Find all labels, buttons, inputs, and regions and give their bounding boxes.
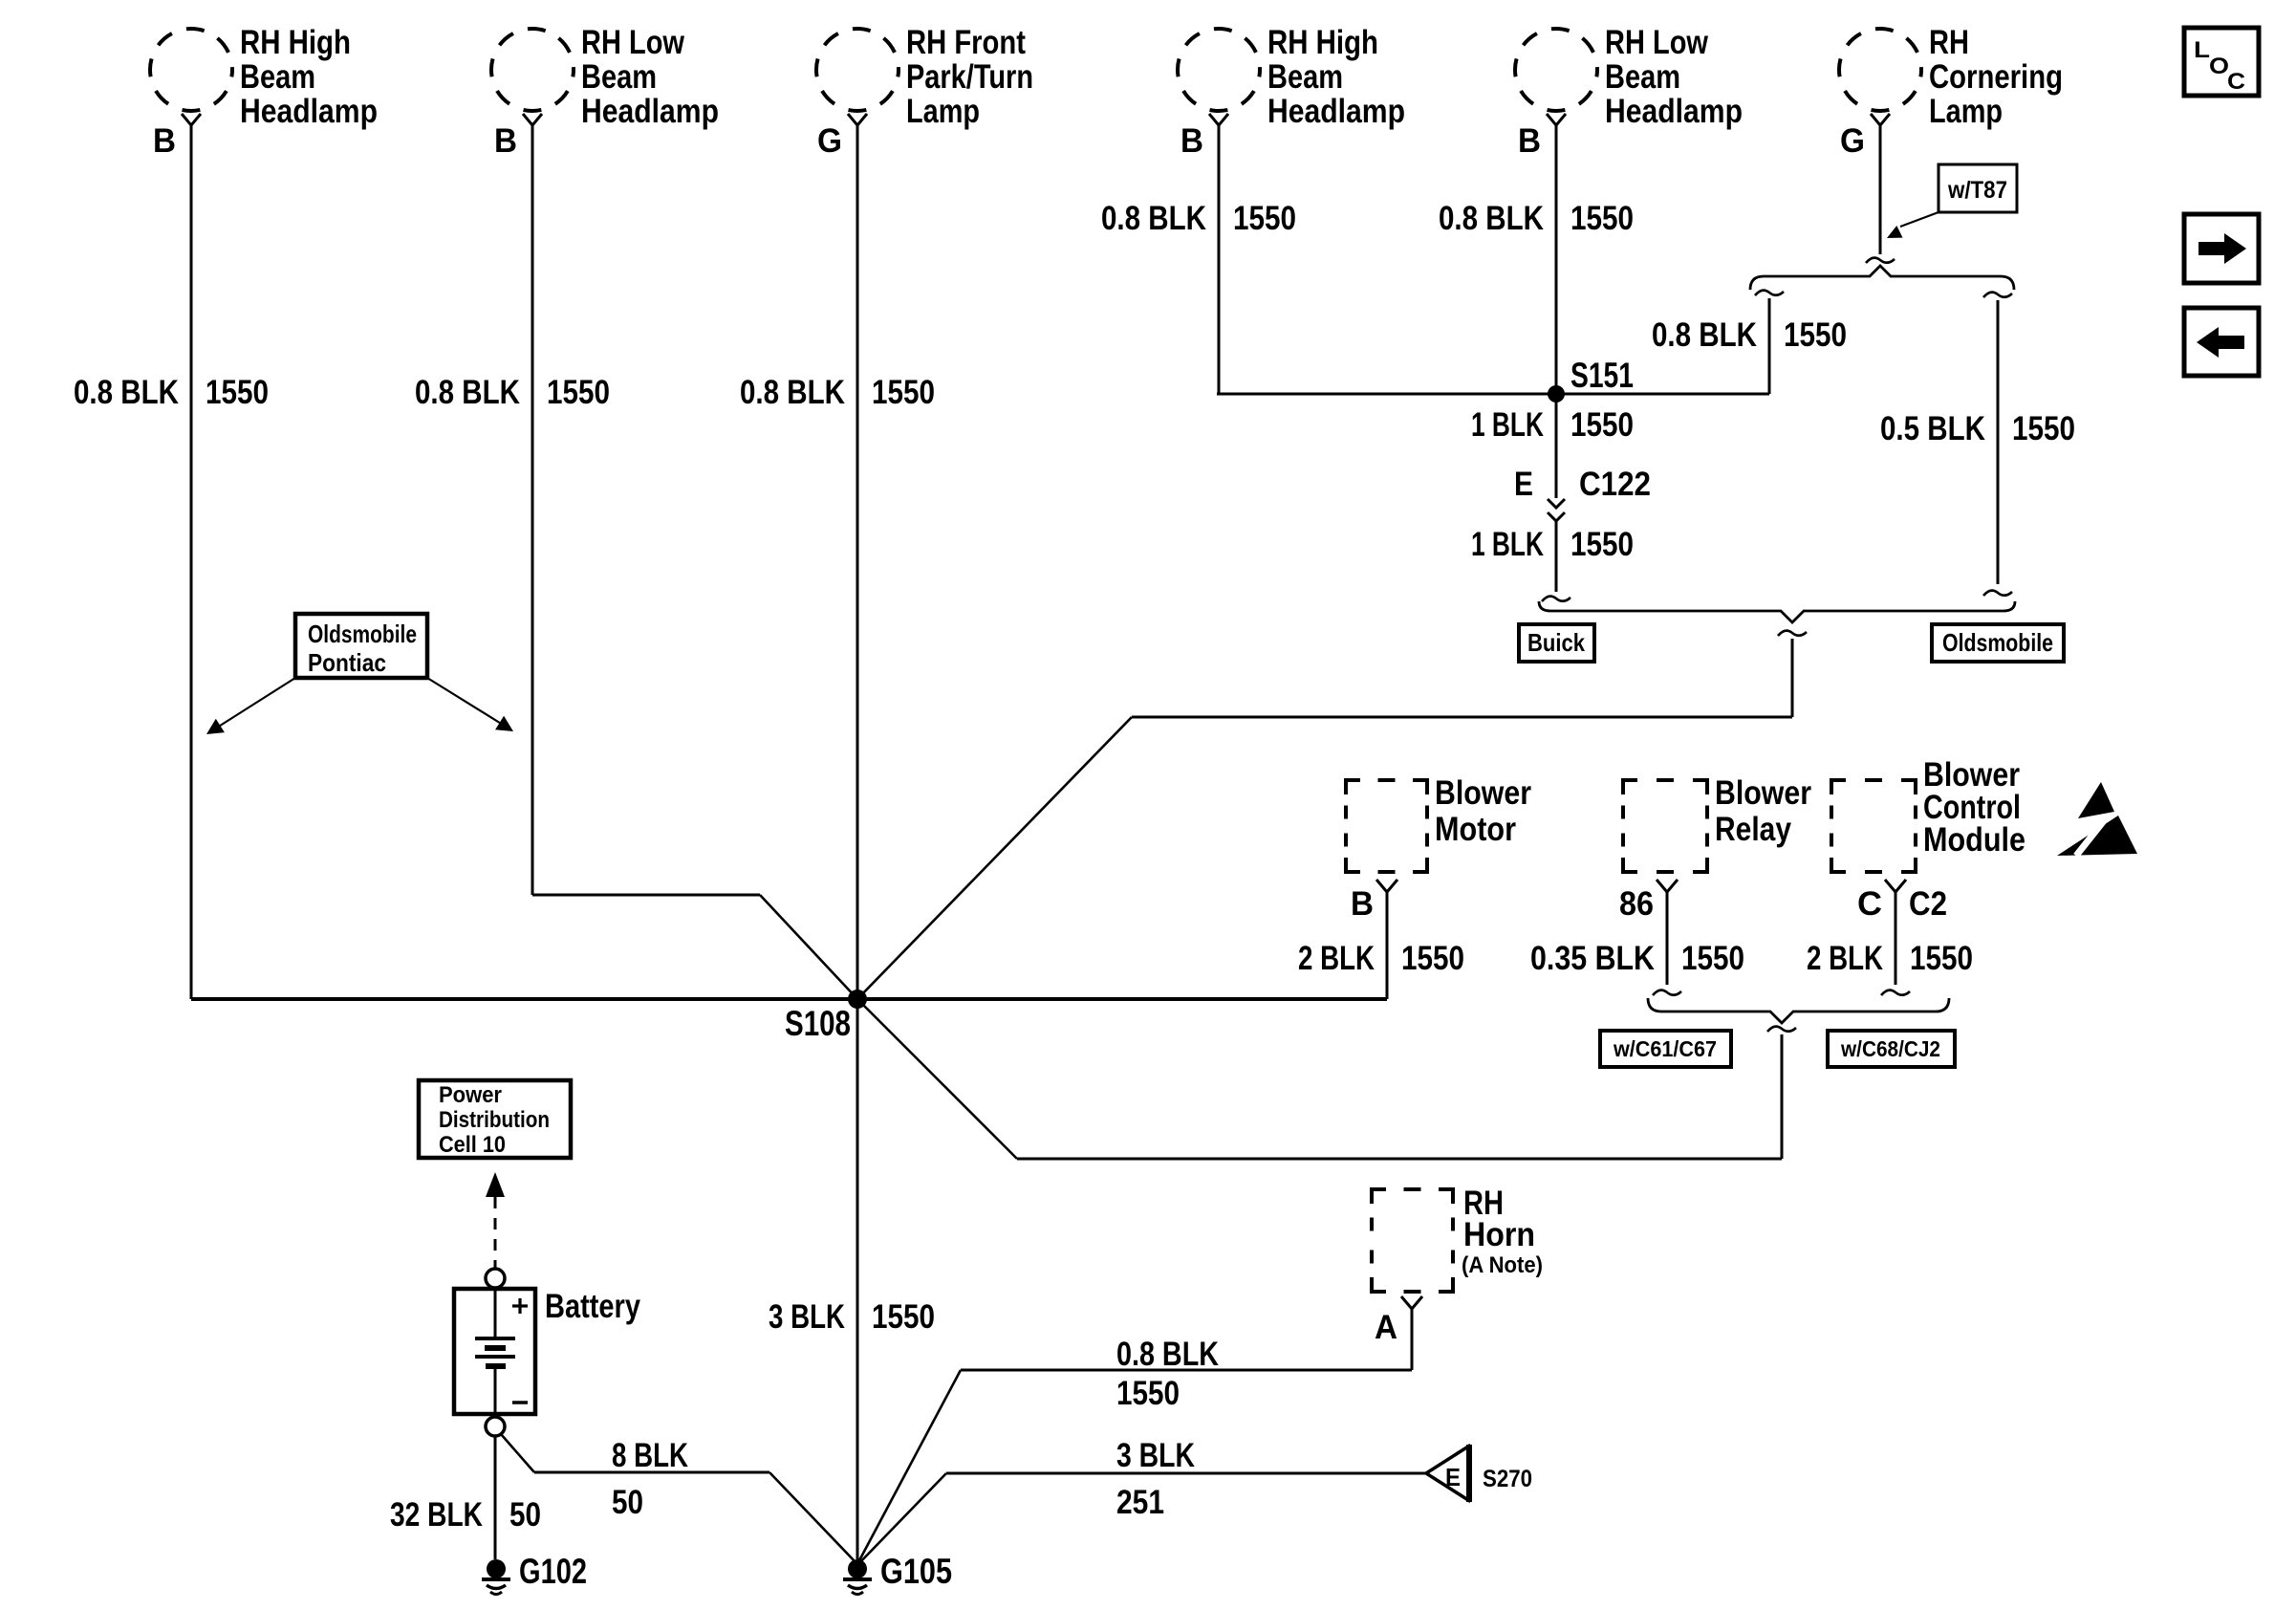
svg-text:C: C	[2227, 69, 2245, 95]
svg-text:G102: G102	[519, 1552, 587, 1591]
svg-text:0.8 BLK: 0.8 BLK	[1439, 200, 1544, 237]
svg-text:B: B	[494, 122, 517, 160]
svg-text:G105: G105	[880, 1552, 952, 1591]
svg-text:0.8 BLK: 0.8 BLK	[74, 374, 179, 411]
svg-text:w/C61/C67: w/C61/C67	[1613, 1036, 1717, 1061]
wire label 0.8 BLK 1550 (branch to S151)	[1652, 316, 1847, 354]
svg-text:1550: 1550	[872, 374, 935, 411]
svg-text:E: E	[1514, 466, 1533, 503]
svg-text:A: A	[1375, 1309, 1397, 1346]
wire 0.35 BLK 1550 from Blower Relay	[1653, 892, 1681, 995]
lamp RH High Beam Headlamp (left)	[150, 24, 378, 160]
wire 0.8 BLK 1550 from RH Cornering Lamp pin G	[1866, 125, 1895, 263]
svg-text:Lamp: Lamp	[1929, 93, 2003, 130]
svg-text:Headlamp: Headlamp	[1605, 93, 1743, 130]
svg-text:Power: Power	[439, 1082, 502, 1108]
svg-text:Buick: Buick	[1527, 628, 1585, 657]
svg-text:0.8 BLK: 0.8 BLK	[415, 374, 520, 411]
callout box Power Distribution Cell 10	[419, 1080, 571, 1158]
svg-text:Battery: Battery	[545, 1288, 640, 1325]
svg-text:50: 50	[612, 1484, 643, 1521]
svg-text:1550: 1550	[1784, 316, 1847, 354]
wire label 32 BLK 50	[390, 1496, 541, 1534]
svg-text:Blower: Blower	[1715, 774, 1811, 812]
svg-text:0.8 BLK: 0.8 BLK	[1116, 1336, 1219, 1373]
wire 0.8 BLK 1550 from RH Low Beam headlamp (right) pin B	[1555, 125, 1558, 498]
svg-text:S270: S270	[1483, 1466, 1532, 1492]
svg-text:1550: 1550	[206, 374, 269, 411]
svg-text:0.8 BLK: 0.8 BLK	[1101, 200, 1206, 237]
component Blower Motor (dashed) pin B	[1346, 774, 1531, 923]
brace splice of cornering lamp wire (w/T87 split)	[1750, 266, 2014, 290]
svg-text:1550: 1550	[1570, 200, 1634, 237]
wire label 1 BLK 1550 (above C122)	[1471, 406, 1634, 444]
svg-text:Oldsmobile: Oldsmobile	[1942, 628, 2053, 657]
component Blower Relay (dashed) pin 86	[1619, 774, 1811, 923]
svg-text:Park/Turn: Park/Turn	[906, 58, 1033, 96]
svg-text:L: L	[2194, 37, 2210, 63]
wire 0.8 BLK 1550 from RH Low Beam headlamp (left) pin B	[531, 125, 534, 895]
svg-text:B: B	[1351, 885, 1374, 923]
component Blower Control Module (dashed) pin C of C2	[1831, 756, 2025, 923]
wire 0.8 BLK 1550 left branch to S151	[1755, 291, 1784, 394]
svg-text:1 BLK: 1 BLK	[1471, 526, 1544, 563]
wire label 0.8 BLK 1550 (right lamp 1)	[1101, 200, 1296, 237]
wire 0.5 BLK 1550 right branch (Oldsmobile)	[1983, 293, 2012, 596]
ESD sensitive device symbol	[2057, 782, 2137, 856]
svg-text:86: 86	[1619, 885, 1654, 923]
svg-text:0.8 BLK: 0.8 BLK	[740, 374, 845, 411]
wire from RH High Beam (right) to S151	[1217, 393, 1769, 396]
callout Oldsmobile Pontiac with arrows to headlamp wires	[206, 614, 513, 734]
svg-text:1550: 1550	[1681, 940, 1744, 977]
lamp RH Low Beam Headlamp (right)	[1515, 24, 1743, 160]
wire 0.8 BLK 1550 from RH High Beam headlamp (right) pin B	[1218, 125, 1221, 394]
wire label 1 BLK 1550 (below C122)	[1471, 526, 1634, 563]
svg-text:(A Note): (A Note)	[1462, 1252, 1543, 1278]
svg-text:RH Low: RH Low	[1605, 24, 1709, 61]
wire from blower brace tail to S108	[857, 999, 1796, 1159]
main ground bus wire to S108	[191, 997, 1387, 1001]
svg-text:1550: 1550	[2012, 410, 2075, 447]
lamp RH High Beam Headlamp (right)	[1178, 24, 1405, 160]
lamp RH Front Park/Turn Lamp	[816, 24, 1033, 160]
svg-text:0.8 BLK: 0.8 BLK	[1652, 316, 1757, 354]
svg-text:C2: C2	[1909, 885, 1947, 923]
svg-text:Headlamp: Headlamp	[1267, 93, 1405, 130]
svg-text:S151: S151	[1570, 356, 1634, 395]
wire 0.8 BLK 1550 from RH Horn to G105	[857, 1309, 1412, 1564]
svg-text:251: 251	[1116, 1484, 1164, 1521]
wire label 8 BLK 50	[612, 1437, 688, 1521]
svg-text:Oldsmobile: Oldsmobile	[308, 620, 417, 648]
lamp RH Cornering Lamp	[1839, 24, 2063, 160]
svg-text:Module: Module	[1923, 821, 2025, 859]
svg-text:RH High: RH High	[240, 24, 351, 61]
svg-text:1550: 1550	[872, 1298, 935, 1336]
svg-text:w/T87: w/T87	[1947, 177, 2007, 204]
node S108	[785, 990, 867, 1043]
svg-text:G: G	[1840, 122, 1865, 160]
svg-text:Horn: Horn	[1463, 1216, 1535, 1253]
component RH Horn (dashed) pin A	[1372, 1185, 1543, 1346]
svg-text:S108: S108	[785, 1004, 851, 1043]
wire label 0.8 BLK 1550 (left lamp 1)	[74, 374, 269, 411]
svg-text:B: B	[1518, 122, 1541, 160]
callout box w/C68/CJ2	[1828, 1031, 1955, 1067]
wire label 0.35 BLK 1550	[1530, 940, 1744, 977]
wire label 0.8 BLK 1550 (left lamp 2)	[415, 374, 610, 411]
svg-text:C122: C122	[1579, 466, 1651, 503]
dashed arrow from battery to Power Distribution	[486, 1172, 505, 1268]
wire label 3 BLK 1550 (S108 to G105)	[769, 1298, 935, 1336]
svg-text:2 BLK: 2 BLK	[1807, 940, 1883, 977]
svg-text:1550: 1550	[1401, 940, 1464, 977]
svg-text:Distribution: Distribution	[439, 1107, 550, 1133]
splice S270 (off-page triangle)	[1426, 1445, 1532, 1502]
wire jog from low-beam wire to S108	[532, 895, 857, 999]
wire 0.8 BLK 1550 from RH High Beam headlamp (left) pin B	[190, 125, 193, 999]
wire from brace tail down-left to S108	[857, 631, 1807, 999]
inline connector C122 pin E	[1514, 466, 1651, 592]
wire label 3 BLK 251	[1116, 1437, 1195, 1521]
callout w/T87 with arrow to cornering lamp wire	[1887, 164, 2017, 238]
wire label 0.5 BLK 1550	[1880, 410, 2075, 447]
brace joining blower relay and control module grounds	[1648, 998, 1949, 1023]
wire 8 BLK 50 battery to G105	[501, 1434, 856, 1562]
svg-text:0.5 BLK: 0.5 BLK	[1880, 410, 1985, 447]
lamp RH Low Beam Headlamp (left)	[491, 24, 719, 160]
svg-text:RH: RH	[1929, 24, 1969, 61]
svg-text:1550: 1550	[1233, 200, 1296, 237]
svg-text:0.35 BLK: 0.35 BLK	[1530, 940, 1655, 977]
svg-text:w/C68/CJ2: w/C68/CJ2	[1840, 1036, 1940, 1061]
svg-text:Blower: Blower	[1435, 774, 1531, 812]
svg-text:32 BLK: 32 BLK	[390, 1496, 483, 1534]
ground G102	[482, 1552, 587, 1595]
svg-text:Beam: Beam	[581, 58, 657, 96]
ground G105	[843, 1552, 952, 1595]
legend icon arrow right	[2184, 214, 2259, 283]
svg-text:G: G	[817, 122, 842, 160]
callout box Buick	[1519, 624, 1594, 662]
wire label 0.8 BLK 1550 (horn)	[1116, 1336, 1219, 1412]
svg-text:3 BLK: 3 BLK	[769, 1298, 845, 1336]
svg-text:E: E	[1445, 1463, 1461, 1491]
svg-text:Headlamp: Headlamp	[240, 93, 378, 130]
callout box Oldsmobile	[1932, 624, 2064, 662]
svg-text:B: B	[1180, 122, 1203, 160]
wire 2 BLK 1550 from Blower Control Module	[1881, 892, 1910, 995]
wire 0.8 BLK 1550 from RH Front Park/Turn lamp pin G	[856, 125, 859, 1559]
svg-text:1550: 1550	[1910, 940, 1973, 977]
svg-text:B: B	[153, 122, 176, 160]
svg-text:1550: 1550	[1116, 1375, 1180, 1412]
wire label 2 BLK 1550 (blower motor)	[1298, 940, 1464, 977]
svg-text:Beam: Beam	[240, 58, 315, 96]
wire 32 BLK 50 battery negative to G102	[494, 1436, 497, 1559]
svg-text:C: C	[1857, 885, 1882, 923]
svg-text:Cell 10: Cell 10	[439, 1132, 506, 1158]
svg-text:1 BLK: 1 BLK	[1471, 406, 1544, 444]
legend icon LOC	[2184, 28, 2259, 96]
svg-text:1550: 1550	[547, 374, 610, 411]
wire label 2 BLK 1550 (blower control module)	[1807, 940, 1973, 977]
svg-text:Lamp: Lamp	[906, 93, 980, 130]
svg-text:3 BLK: 3 BLK	[1116, 1437, 1195, 1474]
svg-text:1550: 1550	[1570, 406, 1634, 444]
wire 3 BLK 251 from S270 to G105	[857, 1473, 1426, 1565]
svg-text:1550: 1550	[1570, 526, 1634, 563]
svg-text:Pontiac: Pontiac	[308, 648, 386, 677]
wire label 0.8 BLK 1550 (park/turn lamp)	[740, 374, 935, 411]
svg-text:Cornering: Cornering	[1929, 58, 2063, 96]
battery B+ with terminals	[454, 1269, 640, 1436]
svg-text:RH Front: RH Front	[906, 24, 1026, 61]
svg-text:RH Low: RH Low	[581, 24, 685, 61]
legend icon arrow left	[2184, 308, 2259, 376]
node S151	[1548, 356, 1634, 402]
svg-text:O: O	[2209, 54, 2229, 79]
svg-text:2 BLK: 2 BLK	[1298, 940, 1375, 977]
wire 2 BLK 1550 from Blower Motor to S108	[1386, 892, 1389, 999]
svg-text:Beam: Beam	[1605, 58, 1680, 96]
brace joining Buick and Oldsmobile wires	[1539, 601, 2015, 622]
callout box w/C61/C67	[1600, 1031, 1731, 1067]
svg-text:Motor: Motor	[1435, 811, 1516, 848]
wire end curl above Buick brace	[1542, 597, 1570, 601]
svg-text:Headlamp: Headlamp	[581, 93, 719, 130]
svg-text:50: 50	[509, 1496, 541, 1534]
wire label 0.8 BLK 1550 (right lamp 2)	[1439, 200, 1634, 237]
svg-text:8 BLK: 8 BLK	[612, 1437, 688, 1474]
svg-text:Relay: Relay	[1715, 811, 1791, 848]
svg-text:Beam: Beam	[1267, 58, 1343, 96]
svg-text:RH High: RH High	[1267, 24, 1378, 61]
